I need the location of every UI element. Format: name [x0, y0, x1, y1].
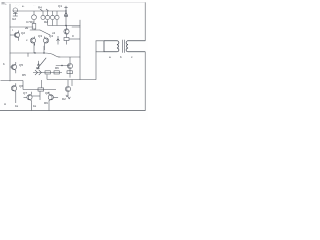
svg-text:D1: D1 [36, 66, 40, 70]
svg-text:Q7: Q7 [23, 91, 27, 95]
svg-text:A: A [4, 102, 6, 106]
svg-text:e.: e. [22, 4, 25, 8]
svg-text:D2: D2 [62, 97, 66, 101]
svg-text:1k: 1k [33, 104, 37, 108]
svg-text:R1: R1 [30, 20, 34, 24]
svg-text:r: r [12, 28, 13, 32]
svg-text:Q6: Q6 [19, 84, 23, 88]
svg-text:. · . ·: . · . · [15, 4, 20, 7]
svg-text:R6: R6 [55, 66, 59, 70]
svg-text:R5: R5 [22, 73, 26, 77]
svg-text:2k: 2k [25, 26, 29, 30]
svg-text:Q1: Q1 [58, 4, 62, 8]
svg-text:G2: G2 [12, 17, 16, 21]
svg-text:R4: R4 [38, 6, 42, 10]
svg-text:Q3: Q3 [38, 34, 42, 38]
svg-text:Q2: Q2 [21, 31, 25, 35]
svg-text:Q8: Q8 [45, 91, 49, 95]
svg-text:Q5: Q5 [19, 63, 23, 67]
svg-text:M₁ .: M₁ . [2, 2, 8, 6]
svg-text:1k: 1k [15, 104, 19, 108]
svg-text:Q4: Q4 [49, 34, 53, 38]
svg-text:R2: R2 [44, 20, 48, 24]
svg-text:R9: R9 [44, 101, 48, 105]
svg-text:· .: · . [33, 4, 36, 7]
